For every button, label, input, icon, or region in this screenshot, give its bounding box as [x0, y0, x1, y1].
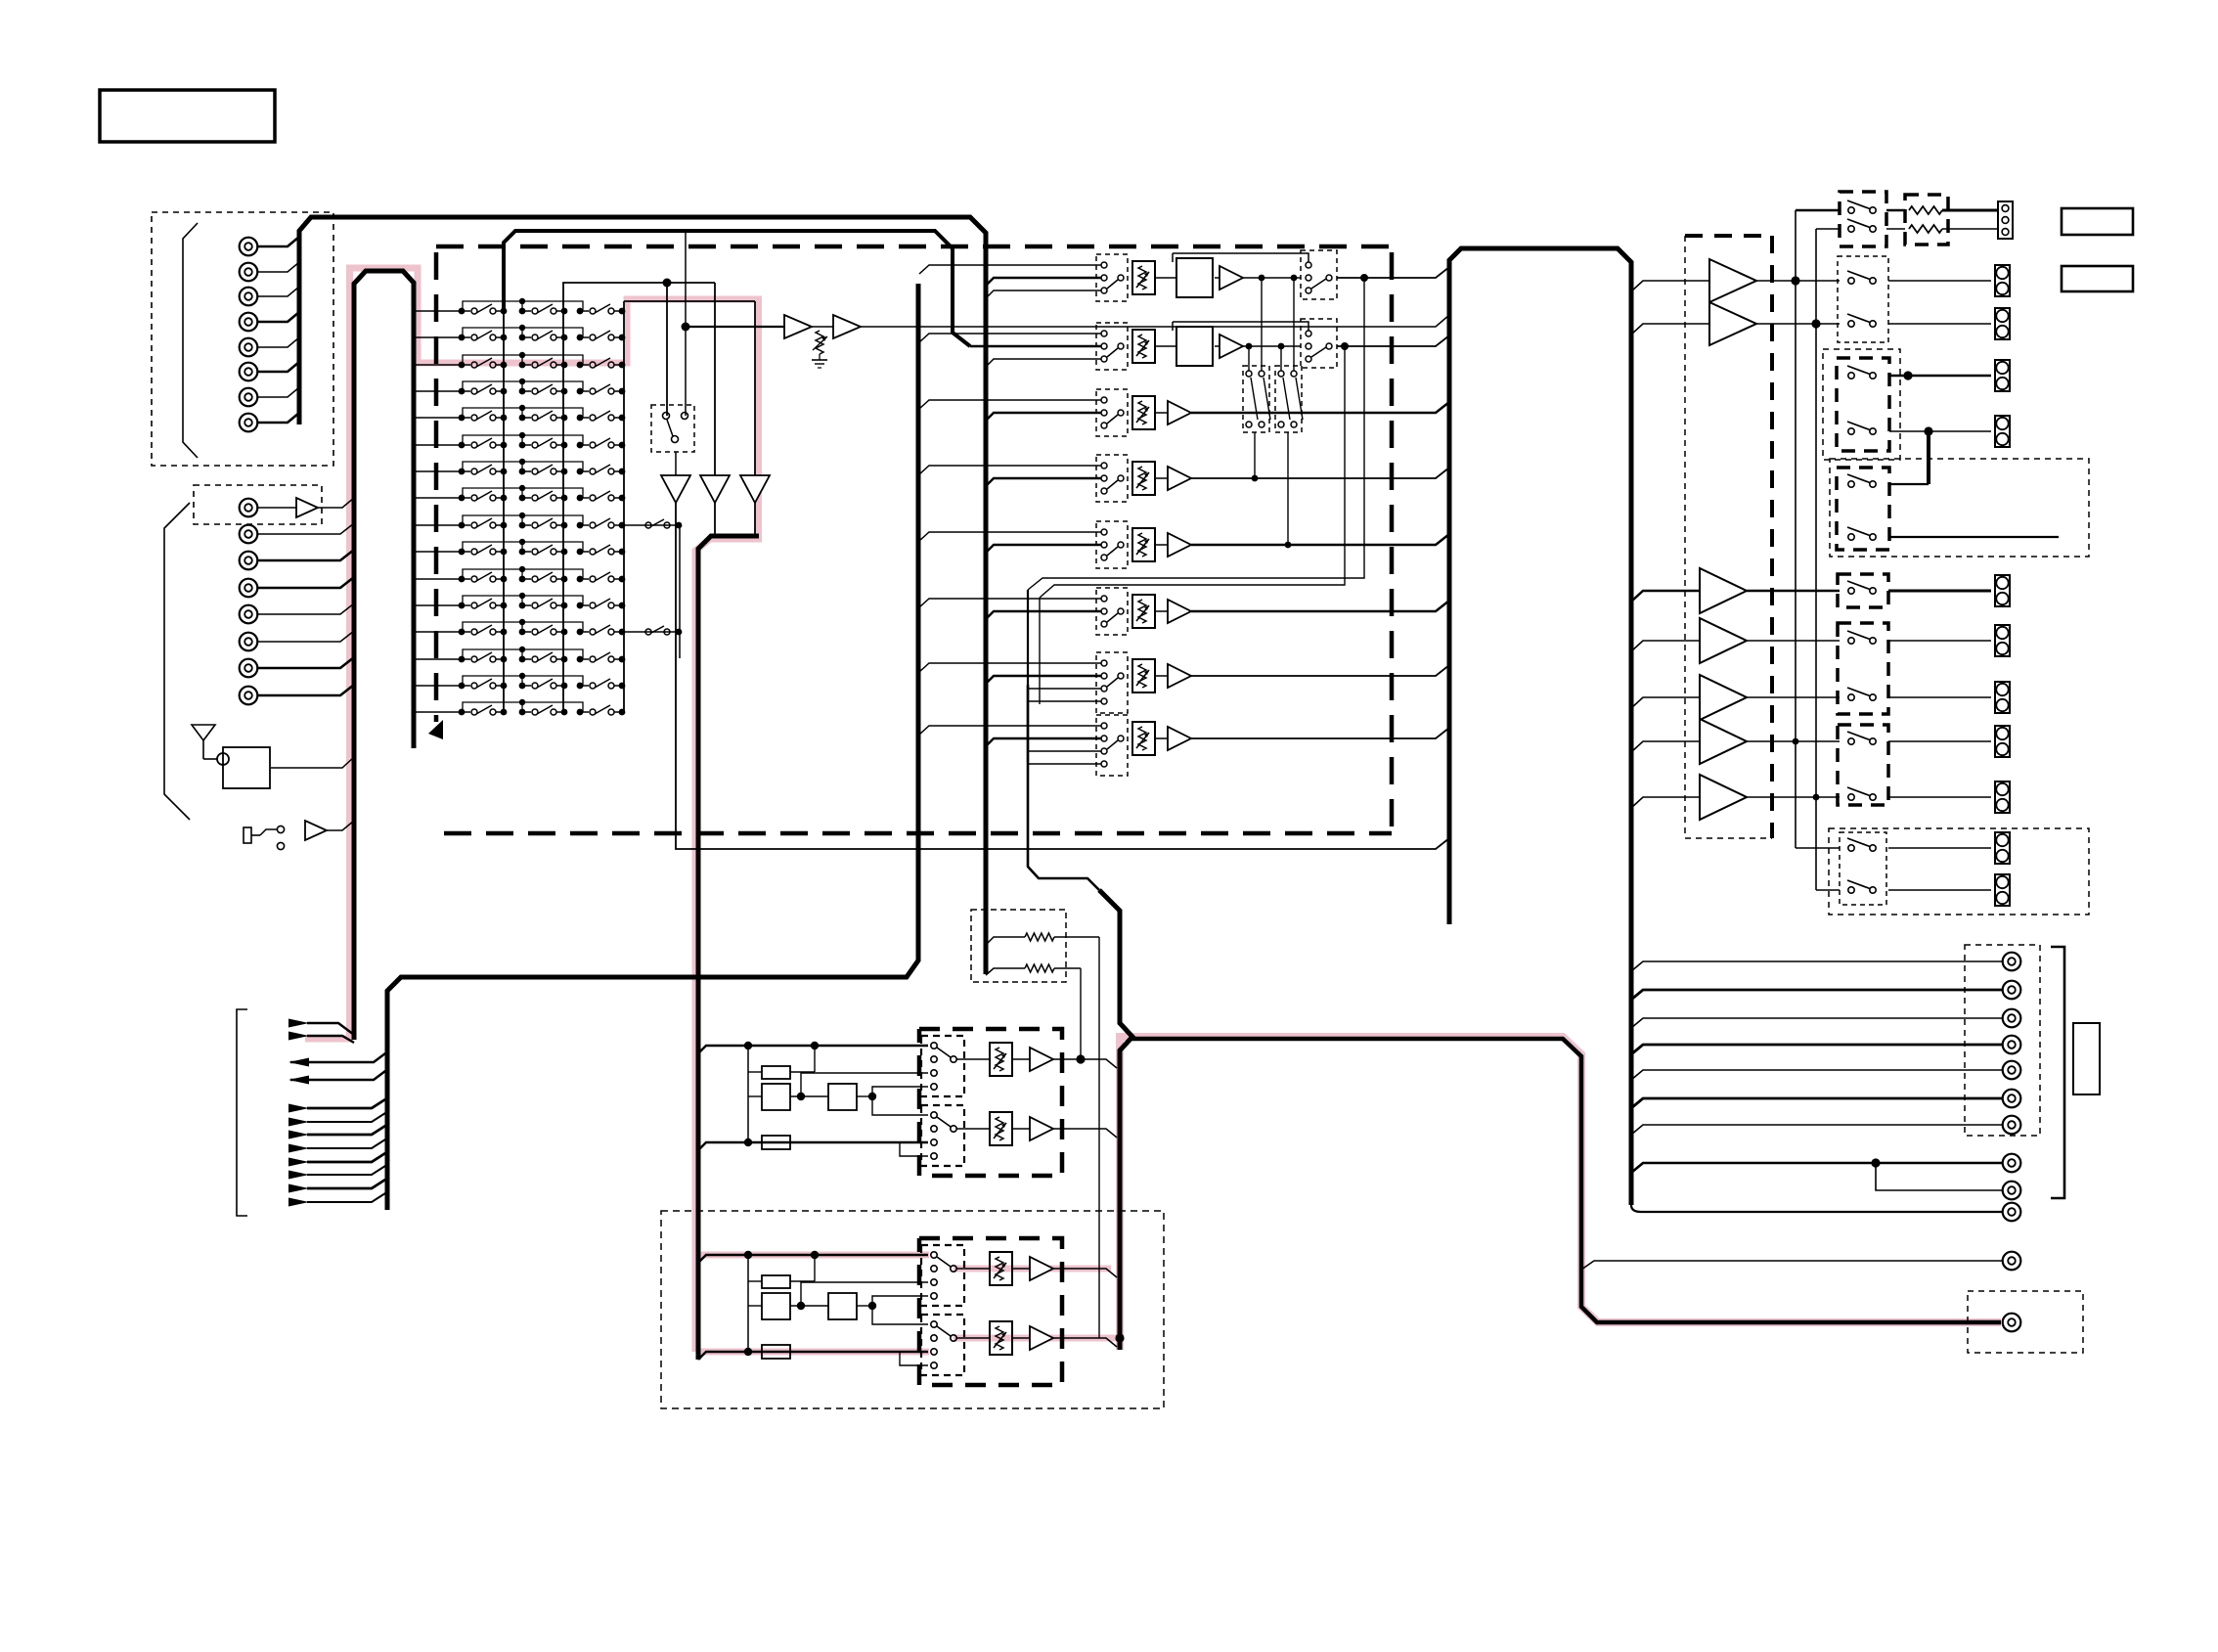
- ground: [819, 354, 821, 360]
- speaker wire 713 out: [1888, 696, 1991, 698]
- arrow in 7: [288, 1158, 309, 1167]
- volume row 7 link: [1155, 675, 1168, 677]
- remote switch box (heavy dashed): [1840, 192, 1886, 246]
- tape monitor block 2 wires to level: [956, 1268, 990, 1270]
- speaker terminal row 441: [1995, 416, 2010, 447]
- wire jack J2-6 to bus: [257, 657, 354, 668]
- volume row 3 link: [1155, 412, 1168, 414]
- surround switch 815: [1848, 794, 1854, 800]
- rec out jack: [2003, 1314, 2021, 1332]
- volume row 6 input wires: [919, 599, 1101, 607]
- wire jack J2-2 to bus: [257, 550, 354, 560]
- input jack J1-5: [240, 338, 258, 357]
- switch matrix row 4: [416, 390, 463, 392]
- output amp 5: [1700, 675, 1747, 720]
- switch matrix row 8: [416, 497, 463, 499]
- pre out jack 7: [2003, 1116, 2021, 1135]
- speaker terminal B row 867: [1995, 832, 2010, 864]
- label box 2: [2062, 266, 2133, 291]
- wire jack J1-3 to bus: [257, 287, 299, 296]
- input jack J2-3: [240, 579, 258, 598]
- volume row 1 input wires: [919, 265, 1101, 274]
- volume row 3 buffer: [1168, 401, 1191, 424]
- arrow in 4: [288, 1118, 309, 1127]
- volume row 8 input switch: [1096, 715, 1128, 776]
- volume row 5 buffer: [1168, 533, 1191, 557]
- volume row 1 level control: [1132, 261, 1155, 294]
- center wire b: [1889, 430, 1991, 432]
- tape monitor block 1 selector switch 1: [921, 1036, 964, 1096]
- center switch outer dashed box: [1823, 349, 1900, 460]
- volume row 1 processor box: [1176, 258, 1213, 297]
- pre out wire 3: [1631, 1018, 2003, 1028]
- switch matrix row 2: [416, 336, 463, 338]
- input group 1 bracket: [183, 223, 198, 458]
- speaker wire row 604: [1747, 590, 1840, 593]
- surround switch box 604 (heavy dashed): [1838, 574, 1888, 607]
- volume row 1 buffer: [1220, 266, 1243, 290]
- selector section dashed border top: [436, 245, 1392, 249]
- speaker wire row 815: [1747, 796, 1840, 798]
- tuner input circle: [217, 753, 229, 765]
- volume row 2 processor box: [1176, 327, 1213, 366]
- output amp 7: [1700, 775, 1747, 820]
- tape 1 output node: [1076, 1054, 1085, 1063]
- arrow in 10: [288, 1198, 309, 1207]
- speakers B switch 867: [1848, 845, 1854, 851]
- speakers B outer dashed box: [1829, 828, 2089, 915]
- pre out jack 3: [2003, 1009, 2021, 1028]
- input jack J2-2: [240, 552, 258, 570]
- selector section dashed border bottom: [444, 831, 1392, 836]
- volume row 1 output node: [1360, 274, 1368, 282]
- speaker wire row 655: [1747, 640, 1840, 642]
- label box 1: [2062, 208, 2133, 235]
- rec select switch box 2: [1275, 366, 1302, 432]
- volume row 4 level control: [1132, 462, 1155, 495]
- speaker wire 287 out: [1888, 280, 1991, 282]
- output amp 4: [1700, 618, 1747, 663]
- wire amp A output long run: [676, 503, 1449, 849]
- tape 2 output node: [1115, 1333, 1124, 1342]
- arrow in 5: [288, 1131, 309, 1139]
- volume row 8 level control: [1132, 722, 1155, 755]
- rec select wires down: [1261, 278, 1263, 371]
- input jack J1-8: [240, 414, 258, 432]
- speakers B switch 910: [1848, 887, 1854, 893]
- volume row 2 monitor switch: [1301, 319, 1337, 368]
- arrow in 3: [288, 1104, 309, 1113]
- buffer amp E: [833, 315, 861, 338]
- speakers B feed 910: [1816, 889, 1840, 891]
- aux bus riser: [1027, 590, 1029, 762]
- speaker terminal row 384: [1995, 360, 2010, 391]
- rec select node b: [1291, 275, 1298, 282]
- remote terminal strip: [1998, 201, 2013, 239]
- tape feed bus: [1028, 685, 1099, 890]
- volume row 4 buffer: [1168, 467, 1191, 490]
- input group 2 bracket: [164, 503, 190, 820]
- volume row 8 input wires: [919, 726, 1101, 735]
- arrow in 8: [288, 1171, 309, 1180]
- pre out wire 6: [1631, 1098, 2003, 1108]
- output amp 3: [1700, 568, 1747, 613]
- phono jack: [240, 499, 258, 517]
- front select switch a: [1848, 278, 1854, 284]
- power amp input row 287: [1631, 281, 1709, 291]
- wire bridge to amp B: [714, 283, 716, 475]
- headphone switch: [277, 826, 284, 832]
- switch matrix row 10: [416, 551, 463, 553]
- sub out jack 2: [2003, 1182, 2021, 1200]
- rec bus (thick): [1099, 890, 1132, 1350]
- speaker terminal B row 910: [1995, 874, 2010, 906]
- speakers B wire 867: [1888, 847, 1991, 849]
- center switch inner box (heavy dashed): [1837, 358, 1889, 451]
- input jack J2-5: [240, 633, 258, 651]
- pink highlighted signal path (source select): [305, 268, 759, 1352]
- speaker wire row 713: [1747, 696, 1840, 698]
- volume row 3 level control: [1132, 396, 1155, 429]
- volume row 2 links: [1155, 345, 1176, 347]
- sub out wire: [1631, 1163, 2003, 1173]
- wire phono buffer to bus: [318, 498, 354, 508]
- mute switch: [663, 413, 670, 420]
- wire jack J2-4 to bus: [257, 603, 354, 614]
- muting resistor dashed box: [971, 910, 1066, 982]
- volume row 7 output wire: [1191, 665, 1449, 676]
- power amp input row 655: [1631, 641, 1700, 651]
- wire tuner to bus: [271, 757, 354, 768]
- speaker wire 815 out: [1888, 796, 1991, 798]
- wire amp C output: [754, 503, 756, 534]
- node on bridge: [663, 279, 672, 288]
- volume row 8 output wire: [1191, 728, 1449, 738]
- zone2 wire: [1581, 1261, 2003, 1270]
- volume row 6 input switch: [1096, 588, 1128, 635]
- tape monitor block 2 buffer 1: [1030, 1257, 1053, 1280]
- volume row 3 input wires: [919, 400, 1101, 409]
- volume row 4 input switch: [1096, 455, 1128, 502]
- switch matrix row 12: [416, 604, 463, 606]
- front select switch box: [1838, 256, 1888, 342]
- speaker terminal row 713: [1995, 682, 2010, 713]
- input jack J1-3: [240, 288, 258, 306]
- pre out wire 2: [1631, 990, 2003, 1000]
- volume row 2 feedback wire: [1173, 322, 1309, 331]
- bus C (selector feed, n-shape, pink-highlighted): [354, 271, 414, 1040]
- volume row 2 feedback riser: [1040, 346, 1345, 598]
- tape monitor block 1 output 2: [1053, 1129, 1117, 1138]
- volume row 3 input switch: [1096, 389, 1128, 436]
- volume row 5 input wires: [919, 532, 1101, 541]
- power amp input row 758: [1631, 741, 1700, 752]
- matrix column bus 1: [503, 305, 505, 713]
- input jack J1-2: [240, 263, 258, 282]
- arrow in 2 (pink): [288, 1032, 309, 1041]
- volume row 4 input wires: [919, 466, 1101, 474]
- pre out jack 6: [2003, 1090, 2021, 1108]
- volume row 6 output wire: [1191, 601, 1449, 611]
- bridge wire col2 to buffer2: [563, 283, 715, 305]
- volume row 7 input wires: [919, 663, 1101, 672]
- speaker terminal row 331: [1995, 308, 2010, 339]
- switch matrix row 3: [416, 364, 463, 366]
- volume row 6 buffer: [1168, 600, 1191, 623]
- tape monitor block 1 selector switch 2: [921, 1105, 964, 1166]
- input jack J2-7: [240, 687, 258, 705]
- wire phono jack to buffer: [257, 507, 296, 509]
- speaker wire 655 out: [1888, 640, 1991, 642]
- buffer amp B (down): [700, 475, 730, 503]
- volume row 5 level control: [1132, 528, 1155, 561]
- speaker terminal row 604: [1995, 575, 2010, 606]
- switch matrix row 16: [416, 711, 463, 713]
- rec select node c: [1246, 343, 1253, 350]
- output amp dashed box top: [1685, 234, 1772, 238]
- surround back outer dashed box: [1830, 459, 2089, 557]
- rec select node d: [1278, 343, 1285, 350]
- tape monitor block 1 output 1: [1053, 1059, 1117, 1068]
- surround switch box 655-713 (heavy dashed): [1838, 623, 1888, 714]
- volume row 2 tri out: [1243, 345, 1301, 347]
- sub out jack 1: [2003, 1154, 2021, 1173]
- center switch a: [1848, 373, 1854, 379]
- rec select switch box 1: [1243, 366, 1269, 432]
- bus E (to tape blocks, thick elbow): [698, 536, 759, 1360]
- tape monitor block 2 input network: [698, 1255, 928, 1263]
- surround back switch a: [1848, 481, 1854, 487]
- monitor vertical b: [1815, 229, 1817, 890]
- volume row 1 input switch: [1096, 254, 1128, 301]
- input jack J2-4: [240, 605, 258, 624]
- pre out jack 4: [2003, 1036, 2021, 1054]
- tape monitor block 1 level control 2: [990, 1112, 1012, 1145]
- wire jack J1-1 to bus: [257, 237, 299, 246]
- tape monitor block 2 selector switch 2: [921, 1315, 964, 1375]
- mute switch dashed box: [651, 405, 694, 452]
- volume row 2 output node: [1341, 342, 1349, 350]
- pre out jack 5: [2003, 1061, 2021, 1080]
- volume row 6 link: [1155, 610, 1168, 612]
- speakers B feed 867: [1796, 847, 1840, 849]
- surround back inner box (heavy dashed): [1837, 468, 1889, 550]
- switch matrix row 13: [416, 631, 463, 633]
- selector section dashed border left end arrow: [428, 720, 443, 739]
- volume row 2 input wires: [919, 334, 1101, 342]
- arrow in 9: [288, 1184, 309, 1193]
- line buffer pair input: [686, 326, 784, 328]
- speaker wire row 331: [1756, 323, 1840, 325]
- arrow in 6: [288, 1144, 309, 1153]
- buffer amp A (down): [661, 475, 690, 503]
- volume row 3 output wire: [1191, 402, 1449, 413]
- volume row 5 input switch: [1096, 521, 1128, 568]
- volume row 2 level control: [1132, 330, 1155, 363]
- wire jack J2-1 to bus: [257, 523, 354, 534]
- bridge wire col3 to buffer3 (pink path): [624, 300, 755, 302]
- surround switch 604: [1848, 588, 1854, 594]
- pre out wire 1: [1631, 961, 2003, 971]
- input jack J2-6: [240, 659, 258, 678]
- tape monitor block 2 output 2: [1053, 1338, 1117, 1347]
- title box: [100, 90, 275, 142]
- bus D (lower main bus to switching area): [387, 284, 918, 1210]
- control bracket: [237, 1009, 247, 1216]
- rec out jack dashed box: [1968, 1291, 2083, 1353]
- tape monitor block 2 heavy dashed frame: [919, 1238, 1062, 1385]
- surround switch 713: [1848, 694, 1854, 700]
- power amp input row 604: [1631, 591, 1700, 602]
- tape 2 big dashed box: [661, 1211, 1164, 1408]
- pink path tape2 row1 output: [954, 1266, 1111, 1272]
- switch matrix row 11: [416, 578, 463, 580]
- sub out branch: [1876, 1163, 2003, 1190]
- volume row 6 level control: [1132, 595, 1155, 628]
- remote resistor box (heavy dashed): [1905, 195, 1948, 245]
- wire jack J1-7 to bus: [257, 387, 299, 397]
- phono dashed box: [194, 485, 322, 524]
- surround switch 655: [1848, 638, 1854, 644]
- speaker wire 758 out: [1888, 740, 1991, 742]
- output amp 1: [1709, 259, 1756, 302]
- zone jack: [2003, 1203, 2021, 1222]
- speaker terminal row 655: [1995, 625, 2010, 656]
- switch matrix row 1: [416, 310, 463, 312]
- volume row 2 output wire: [1337, 335, 1449, 346]
- power amp block outline: [1449, 248, 1631, 1205]
- speakers B switch box: [1840, 832, 1886, 905]
- row 234 wire: [1816, 228, 1840, 230]
- rec select out 2: [1287, 432, 1289, 545]
- wire resistor 1 down: [1098, 937, 1100, 1338]
- rec out bus (thick, pink-highlighted): [1131, 1039, 2001, 1322]
- input jack J1-1: [240, 238, 258, 256]
- input jack J2-1: [240, 525, 258, 544]
- volume row 4 output wire: [1191, 468, 1449, 478]
- rec select node a: [1259, 275, 1265, 282]
- bus A (input collect, thick): [299, 217, 986, 974]
- front select switch b: [1848, 321, 1854, 327]
- volume row 1 feedback riser: [1028, 278, 1364, 590]
- selector section dashed border right: [1390, 252, 1395, 830]
- volume row 2 buffer: [1220, 335, 1243, 358]
- wire jack J1-2 to bus: [257, 262, 299, 272]
- pink path tape2 row2 output: [954, 1335, 1123, 1342]
- surround back wire a: [1889, 483, 1929, 485]
- volume row 8 link: [1155, 737, 1168, 739]
- speaker wire row 287: [1756, 280, 1840, 282]
- muting resistor 1: [986, 937, 1025, 945]
- pre out wire 7: [1631, 1125, 2003, 1135]
- volume row 1 feedback wire: [1173, 253, 1309, 262]
- output amp 6: [1700, 719, 1747, 764]
- power amp input row 331: [1631, 324, 1709, 335]
- phono buffer amp: [296, 498, 318, 517]
- pink path rec-out bus: [1120, 1037, 2001, 1350]
- speaker wire row 758: [1747, 740, 1840, 742]
- output amp dashed box right: [1770, 236, 1774, 838]
- zone out wire from block: [1631, 1205, 2003, 1212]
- speaker terminal row 758: [1995, 726, 2010, 757]
- pre out jack 2: [2003, 981, 2021, 1000]
- headphone buffer amp: [305, 821, 327, 840]
- tape monitor block 2 level control 2: [990, 1321, 1012, 1355]
- input jack J1-6: [240, 363, 258, 381]
- tape monitor block 1 level control 1: [990, 1043, 1012, 1076]
- surround switch 758: [1848, 738, 1854, 744]
- wire jack J1-6 to bus: [257, 362, 299, 372]
- pre out dashed box: [1965, 945, 2040, 1136]
- switch matrix row 5: [416, 417, 463, 419]
- input group 1 dashed box: [152, 212, 333, 466]
- volume row 4 link: [1155, 477, 1168, 479]
- bus B2 (rec select, thick): [504, 231, 970, 346]
- wire jack J1-4 to bus: [257, 312, 299, 322]
- pre out wire 4: [1631, 1045, 2003, 1054]
- wire mute switch to amp: [675, 452, 677, 475]
- wire buffer E output: [861, 315, 1449, 327]
- wire D to E: [812, 326, 833, 328]
- power amp input row 713: [1631, 697, 1700, 708]
- remote resistor b: [1886, 228, 1905, 230]
- switch matrix row 9: [416, 524, 463, 526]
- remote resistor a: [1886, 209, 1905, 212]
- matrix column bus 2: [562, 301, 564, 713]
- volume row 1 output wire: [1337, 267, 1449, 278]
- tape monitor block 1 heavy dashed frame: [919, 1029, 1062, 1176]
- buffer amp C (down, selected path): [740, 475, 770, 503]
- volume row 1 monitor switch: [1301, 250, 1337, 299]
- remote switch a: [1848, 207, 1854, 213]
- speaker terminal row 287: [1995, 265, 2010, 296]
- arrow out 2: [288, 1076, 309, 1085]
- wire jack J2-7 to bus: [257, 685, 354, 695]
- output amp 2: [1709, 302, 1756, 345]
- selector section dashed border left: [434, 252, 439, 722]
- wire resistor 2 down: [1080, 968, 1082, 1059]
- antenna symbol: [192, 725, 215, 740]
- volume row 7 input switch: [1096, 652, 1128, 713]
- matrix column bus 3: [623, 301, 625, 713]
- pre out wire 5: [1631, 1070, 2003, 1080]
- pink path tape2 row2 input: [698, 1349, 929, 1356]
- volume row 7 level control: [1132, 659, 1155, 692]
- volume row 7 buffer: [1168, 664, 1191, 688]
- zone2 jack: [2003, 1252, 2021, 1271]
- tape monitor block 1 input network: [698, 1046, 928, 1053]
- switch matrix row 7: [416, 470, 463, 472]
- remote switch b: [1848, 226, 1854, 232]
- arrow out 1: [288, 1058, 309, 1067]
- speaker wire 604 out (thick): [1888, 590, 1991, 593]
- pre out jack 1: [2003, 953, 2021, 971]
- surround back wire b: [1889, 536, 2059, 538]
- wire headphone to bus: [327, 821, 354, 830]
- row 215 wire: [1796, 209, 1840, 212]
- volume row 2 input switch: [1096, 323, 1128, 370]
- wire amp B output: [714, 503, 716, 536]
- monitor vertical a: [1795, 210, 1797, 848]
- buffer amp D: [784, 315, 812, 338]
- wire jack J2-3 to bus: [257, 577, 354, 588]
- rec select out 1: [1254, 432, 1256, 478]
- arrow in 1: [288, 1019, 309, 1028]
- center wire a: [1889, 375, 1991, 378]
- switch matrix row 6: [416, 444, 463, 446]
- trim pot: [816, 331, 823, 354]
- surround back switch b: [1848, 534, 1854, 540]
